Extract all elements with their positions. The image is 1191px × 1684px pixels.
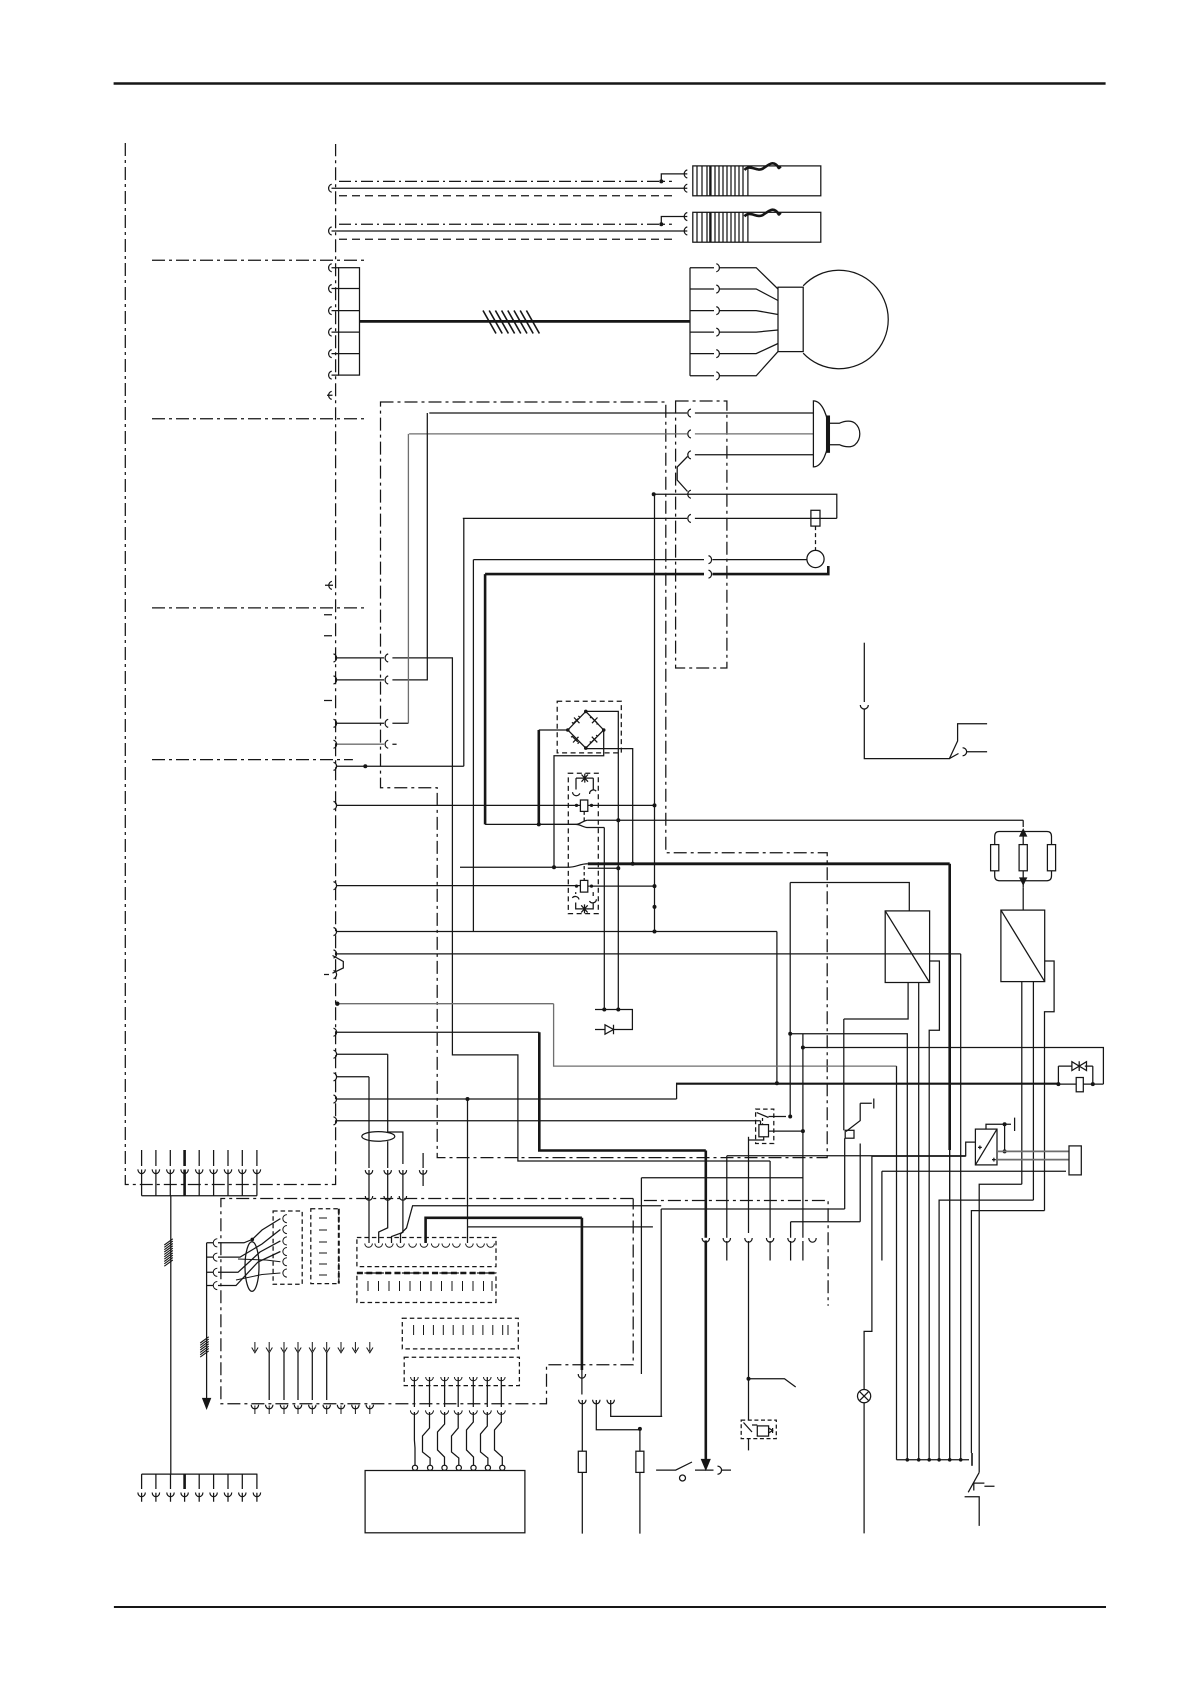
harness oval around strip feeds	[362, 1132, 395, 1142]
staircase: box2-right to bus5	[939, 1200, 1033, 1460]
engine col pin stubs	[325, 581, 333, 589]
bridge bottom vertex wire	[586, 748, 633, 864]
spare wire hooks row B	[251, 1405, 373, 1409]
relay 2 switch link dashed	[583, 866, 585, 880]
sensor ground wire (thick)	[485, 573, 704, 576]
main feed (thick) from cab to fuse 1	[426, 1218, 582, 1243]
engine connector row 8	[334, 950, 961, 958]
sensor signal wire	[473, 556, 807, 564]
box2 bottom-right wire	[1032, 982, 1034, 1201]
engine connector row 5 (fuel sender)	[336, 518, 464, 766]
bridge right vertex wire	[554, 730, 604, 867]
relay 1 coil	[580, 800, 587, 811]
staircase: box2-left down to panel switch	[979, 1184, 1022, 1472]
engine connector row 7 (charge wire)	[334, 928, 777, 936]
engine connector row 10 (feeder)	[334, 1028, 540, 1036]
glow indicator lamp	[858, 1390, 871, 1534]
hatch mark on trunk wire	[164, 1239, 173, 1266]
glow control relay (relay 3)	[749, 1109, 805, 1143]
strip feed stub 4	[422, 1153, 424, 1168]
relay 3 output vertical to starter relay	[748, 1144, 750, 1234]
starter motor fan-in bus	[690, 264, 778, 380]
relay 1 coil contacts on wire	[575, 804, 655, 806]
blocking diode loop	[1056, 1061, 1103, 1092]
main switched feed (thick) down to bus	[948, 864, 951, 1150]
engine col lone connector	[327, 391, 333, 399]
cab connector strip 1 lower (bold dashed)	[357, 1273, 496, 1303]
trunk wire down left	[170, 1196, 172, 1474]
engine connector row 14 (relay 3 coil)	[334, 1117, 761, 1125]
page bottom rule	[114, 1606, 1106, 1608]
wires from middle into strip 1	[365, 1132, 406, 1243]
gray vertical to alternator L	[407, 434, 409, 723]
relay 2 branch wire	[588, 867, 619, 869]
pin array lower	[138, 1474, 261, 1502]
alternator wire L (gray)	[409, 433, 687, 435]
engine harness multi-connector	[207, 1219, 281, 1341]
junction above relay 4	[747, 1377, 751, 1381]
alternator body	[813, 401, 859, 467]
engine connector row 13 (sense)	[334, 1095, 677, 1103]
glow timer box 2	[1001, 910, 1045, 982]
ECU feed wires	[414, 1412, 502, 1465]
wire: strip 1 to ignition circuit	[401, 1206, 662, 1243]
section divider dash-dot 1	[152, 259, 366, 261]
glow plug 2 terminal connectors	[684, 213, 687, 221]
spare wire arrows row A	[252, 1342, 373, 1353]
bridge AC left wire + thick vertical	[539, 729, 568, 731]
box1 bottom-right wire (to bus)	[918, 983, 920, 1460]
meter feed wire	[882, 1170, 1066, 1172]
engine connector row 4 (spare, gray)	[336, 743, 384, 745]
start switch wire steps right side	[661, 1209, 860, 1222]
fuel sender terminal	[811, 510, 820, 526]
engine connector row 12	[334, 1073, 370, 1081]
wire: engine col to glow plug 1	[332, 187, 688, 189]
connector break arcs on bundle verticals	[702, 1238, 816, 1242]
glow plug 1 wiring	[661, 174, 687, 182]
bulkhead connector block	[1069, 1146, 1081, 1175]
engine connector row 9 (gray)	[337, 1003, 553, 1005]
main battery cable (thick) to starter	[360, 320, 691, 323]
relay 1 switch link dashed	[583, 811, 585, 823]
harness inner connector box	[273, 1211, 302, 1284]
wire down from charge wire to regulator area	[776, 932, 778, 1084]
box2 bottom-left wire	[1021, 982, 1023, 1185]
ground bus bar	[897, 1459, 970, 1461]
engine connector row 3 (alternator L)	[336, 719, 409, 727]
box1 bottom-left wire	[844, 983, 908, 1020]
wire box1 left loop	[843, 1019, 845, 1130]
wire: engine col to glow plug 2	[332, 230, 688, 232]
oil pressure switch assembly	[845, 1099, 874, 1222]
spare wire links A-B	[269, 1353, 327, 1400]
unit top T-bar terminal	[986, 1118, 1015, 1131]
cab connector strip 1 (upper)	[357, 1238, 496, 1267]
relay 1 fixed contact wire	[588, 819, 1023, 821]
wire from relay top net down	[617, 820, 619, 1009]
harness spare pin box	[311, 1209, 339, 1284]
cab ECU box	[365, 1471, 525, 1533]
regulator box 1	[885, 911, 929, 983]
relay 2 coil	[580, 880, 587, 892]
alternator wire R	[688, 451, 814, 459]
gray link down to lamp diode unit	[554, 1004, 897, 1066]
fuel/water sensor	[807, 550, 824, 567]
harness boundary dash-dot box (middle)	[381, 402, 828, 1158]
cab connector strip 3	[404, 1357, 519, 1385]
starter motor	[778, 270, 888, 368]
jumper bracket rows 953/974	[333, 956, 344, 974]
long regulator output wire	[677, 1083, 1059, 1085]
dash-dot stub lines bottom right	[644, 1201, 828, 1306]
glow plug 1 body	[693, 163, 821, 196]
strip feed connecting segments	[369, 1170, 403, 1196]
charge indicator bus wire	[654, 494, 656, 933]
relay 2 suppressor diode lower	[572, 892, 596, 913]
heater resistor pack	[991, 832, 1056, 888]
glow plug 1 terminal connectors	[684, 170, 687, 178]
preheat indicator unit (box with diagonal)	[975, 1129, 997, 1165]
bridge rectifier diamond	[566, 710, 606, 750]
indicator lamp feed wire	[864, 1156, 966, 1390]
thick feeder vertical	[539, 1032, 706, 1150]
bus vertical 1	[896, 1066, 898, 1460]
relay 1 suppressor diode	[573, 774, 597, 796]
glow plug 2 body	[693, 210, 821, 243]
engine connector row 11	[334, 1050, 388, 1058]
relay wire down to cab	[641, 1178, 803, 1374]
fuse 1	[578, 1400, 586, 1534]
relay supply vertical A (thick with arrow)	[704, 1151, 707, 1238]
water temp sender wire (thick) down to thick net	[484, 574, 487, 824]
cable break hatch marks	[483, 311, 539, 334]
glow plug 2 wiring	[661, 217, 687, 225]
bridge top output wire	[586, 711, 619, 820]
section divider dash-dot 3	[152, 607, 365, 609]
fuse 2 feed bracket	[596, 1400, 640, 1430]
box1 feed wire	[790, 883, 909, 911]
glow relay (relay 1) dashed box (shared tall box)	[568, 773, 598, 913]
backup diode unit	[595, 1010, 632, 1035]
harness ground lead with arrow	[206, 1340, 208, 1400]
section divider dash-dot 4	[152, 759, 353, 761]
accessory switch bottom	[656, 1462, 731, 1481]
instrument connector dash-dot box (small)	[676, 401, 727, 668]
unit left step wire	[727, 1142, 976, 1156]
air heater indicator wire upper right	[863, 643, 865, 702]
page top rule	[114, 82, 1106, 85]
relay 1 moving blade	[539, 824, 605, 827]
spare wire from strip 1	[468, 1227, 653, 1243]
regulator sense vertical	[789, 883, 791, 1117]
heater resistor pack feed wire	[1022, 820, 1024, 827]
cab harness dash-dot box (bottom)	[221, 1199, 633, 1404]
unit output gray pair to connector	[997, 1151, 1069, 1159]
panel switch (ground side)	[965, 1472, 995, 1526]
engine connector row 1 (to cab)	[336, 654, 770, 1161]
engine connector row 2 (alternator B+)	[336, 413, 427, 684]
wire: col to fuel sender loop top	[654, 494, 837, 518]
wire: fuel sender loop bottom	[463, 514, 837, 522]
glow power wire to relay 1 blade	[485, 820, 588, 824]
strip 3 output wires	[410, 1377, 505, 1414]
cab connector strip 2	[402, 1318, 518, 1349]
engine connector block (6 way)	[329, 264, 360, 380]
pin array upper	[138, 1150, 261, 1196]
engine boundary dash-dot frame (left)	[125, 143, 335, 1185]
engine connector row 6 (glow relay contact)	[336, 804, 575, 806]
stub tails below arcs	[727, 1241, 803, 1261]
bridge rectifier dashed box	[557, 701, 621, 753]
relay 1 switched output vertical	[603, 828, 605, 1010]
fuse 2	[636, 1427, 644, 1534]
staircase: box2 tab to bus8	[971, 1211, 1044, 1453]
wire resistor pack to timer unit	[1022, 887, 1024, 910]
starter relay (relay 4)	[741, 1420, 776, 1439]
section divider dash-dot 2	[152, 418, 366, 420]
bus vertical 7	[960, 954, 962, 1460]
alternator wire B+	[429, 409, 813, 417]
box2 right tab wire	[1045, 961, 1055, 1211]
jumper bracket on alternator connector	[677, 457, 691, 499]
safety relay (relay 2) thick contact wire	[460, 864, 588, 867]
box1 tab wire to bus	[929, 961, 939, 1460]
ignition wire down to cab	[769, 1161, 771, 1238]
wire to bus 2	[790, 1034, 907, 1460]
ECU terminals	[412, 1465, 505, 1470]
relay 2 coil contact wire	[336, 885, 655, 888]
